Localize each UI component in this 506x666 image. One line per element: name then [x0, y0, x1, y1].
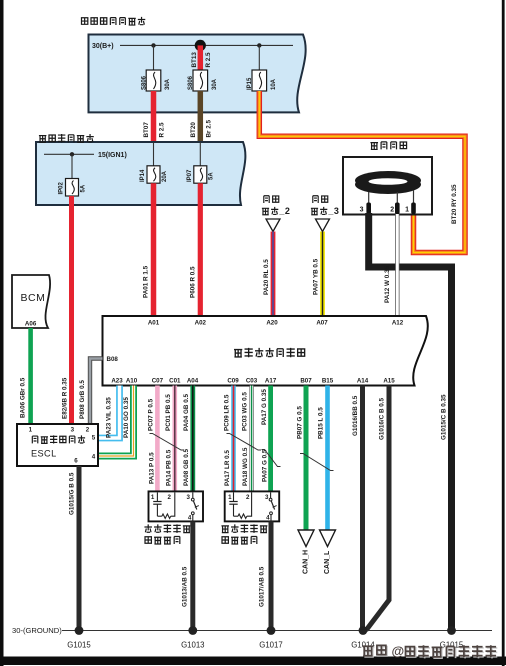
keyless control module 无钥匙控制模块: [103, 316, 428, 386]
ground G1014: [359, 626, 368, 635]
ground G1015 (ESCL): [75, 626, 84, 635]
ground G1015 (coil): [447, 626, 456, 635]
svg-text:E82/6B R 0.35: E82/6B R 0.35: [61, 377, 68, 419]
svg-text:PA20 RL 0.5: PA20 RL 0.5: [263, 259, 270, 295]
svg-text:G1016/C B 0.5: G1016/C B 0.5: [379, 397, 386, 440]
svg-text:A10: A10: [126, 378, 138, 385]
svg-text:IP07: IP07: [187, 169, 193, 182]
coil pin 1 lead: [413, 190, 415, 204]
wire 30(B+) to fuse IP15: [258, 45, 260, 70]
svg-text:3: 3: [360, 207, 364, 214]
svg-text:2: 2: [285, 206, 290, 216]
svg-text:PC07 P 0.5: PC07 P 0.5: [148, 398, 155, 431]
border frame: [0, 0, 4, 666]
svg-text:3: 3: [186, 494, 190, 501]
node on 30(B+) above S806-2 (junction): [195, 40, 206, 51]
connector slash right antenna wires: [227, 434, 262, 451]
wire G1016/C B 0.5 (A15 to ground G1014): [365, 386, 389, 631]
fuse IP07 5A: [194, 166, 207, 183]
svg-text:S806: S806: [141, 75, 147, 90]
immobilizer coil box 防盗线圈: [370, 143, 378, 150]
svg-text:BT07: BT07: [143, 122, 150, 138]
svg-text:PB07 G 0.5: PB07 G 0.5: [296, 406, 303, 439]
wire G1015/C B 0.35 (coil pin3 to ground G1015, thick black): [369, 213, 452, 631]
engine compartment fuse box 发动机舱电器盒: [89, 35, 306, 113]
wire G1015/G B 0.5 (ESCL pin6 to ground G1015): [77, 466, 82, 631]
coil pin 3 terminal: [366, 203, 371, 215]
svg-text:BT20: BT20: [190, 122, 197, 138]
wire PC09 LR 0.5 / PA17 LR 0.5 (C09 to right antenna pin1): [231, 386, 236, 492]
connector slash left antenna wires: [150, 434, 185, 451]
wire BT20 RY 0.35 orange (IP15 to immobilizer coil pin1): [259, 91, 465, 253]
wire P808 GrB 0.5 (module B08 to ESCL pin2): [90, 359, 103, 425]
svg-text:G1017/AB 0.5: G1017/AB 0.5: [259, 566, 266, 607]
wire PA20 RL 0.5 (brake switch 2 to module A20): [271, 232, 276, 317]
coil pin 3 lead: [368, 192, 370, 204]
svg-text:A04: A04: [187, 378, 199, 385]
svg-text:C07: C07: [152, 378, 164, 385]
svg-text:PA01 R 1.5: PA01 R 1.5: [143, 265, 150, 298]
svg-text:G1013/AB 0.5: G1013/AB 0.5: [182, 566, 189, 607]
svg-text:30A: 30A: [212, 78, 218, 90]
wire PB15 L 0.5 (B15 to CAN_L): [325, 386, 330, 530]
svg-text:2: 2: [86, 427, 90, 434]
svg-text:R 2.5: R 2.5: [205, 52, 212, 68]
svg-text:PC01 PB 0.5: PC01 PB 0.5: [165, 394, 172, 431]
wire PA23 VIL 0.35 (module A23 to ESCL pin5): [98, 386, 120, 439]
node on 30(B+) above IP15: [257, 43, 261, 47]
svg-text:BCM: BCM: [21, 292, 46, 304]
svg-text:5A: 5A: [80, 184, 86, 192]
svg-text:A06: A06: [25, 321, 37, 328]
wire PA07 YB 0.5 (brake switch 3 to module A07): [320, 232, 325, 317]
wire P606 R 0.5 (IP07 to module A02): [198, 183, 203, 316]
wire G1013/AB 0.5 (left antenna pin4 to ground G1013): [190, 521, 195, 630]
svg-text:5: 5: [92, 435, 96, 442]
svg-text:15(IGN1): 15(IGN1): [98, 152, 127, 159]
svg-text:A01: A01: [148, 320, 160, 327]
wire 15(IGN1) to fuse IP02: [71, 154, 73, 178]
svg-text:A07: A07: [316, 320, 328, 327]
svg-text:PA23 VIL 0.35: PA23 VIL 0.35: [105, 397, 112, 438]
wire BT13 R 2.5 (30(B+) to fuse S806-2): [198, 45, 204, 70]
wire G1016/BB 0.5 (A14 to ground G1014): [360, 386, 365, 631]
wire PA12 W 0.35 (coil pin2 to module A12): [395, 214, 399, 316]
svg-text:20A: 20A: [162, 170, 168, 182]
svg-text:A02: A02: [195, 320, 207, 327]
svg-text:10A: 10A: [271, 78, 277, 90]
svg-text:G1015/G B 0.5: G1015/G B 0.5: [69, 472, 76, 515]
ground G1013: [188, 626, 197, 635]
svg-text:A23: A23: [111, 378, 123, 385]
svg-text:4: 4: [92, 454, 96, 461]
svg-text:C09: C09: [227, 378, 239, 385]
wire BT07 R 2.5 (S806-1 to IP14): [151, 91, 157, 142]
svg-text:2: 2: [246, 494, 250, 501]
svg-text:Br 2.5: Br 2.5: [205, 120, 212, 138]
svg-text:IP15: IP15: [247, 77, 253, 90]
svg-text:P606 R 0.5: P606 R 0.5: [190, 266, 197, 298]
brake switch 2 connector 制动开关_2: [264, 196, 269, 203]
svg-text:PA14 PB 0.5: PA14 PB 0.5: [165, 449, 172, 486]
right front door handle LF antenna 右前门把手低频天线: [225, 491, 280, 521]
svg-text:B08: B08: [107, 356, 119, 363]
svg-text:S806: S806: [188, 75, 194, 90]
wire 30(B+) to fuse S806-1: [153, 45, 155, 70]
coil pin 2 lead: [396, 192, 398, 204]
connector slash CAN wires: [300, 454, 334, 471]
svg-text:PA08 GB 0.5: PA08 GB 0.5: [183, 449, 190, 486]
wire PB07 G 0.5 (B07 to CAN_H): [304, 386, 309, 530]
svg-text:G1016/BB 0.5: G1016/BB 0.5: [352, 395, 359, 436]
svg-text:PC03 WG 0.5: PC03 WG 0.5: [242, 392, 249, 431]
left front door handle LF antenna 左前门把手低频天线: [149, 491, 204, 521]
svg-text:G1017: G1017: [259, 640, 282, 649]
brake switch 3 connector 制动开关_3: [313, 196, 318, 203]
watermark 头条@汽修技师众微联: [364, 647, 387, 657]
svg-text:C03: C03: [246, 378, 258, 385]
svg-text:PC09 LR 0.5: PC09 LR 0.5: [224, 394, 231, 431]
coil pin 2 terminal: [395, 203, 400, 215]
node on 15(IGN1): [70, 152, 74, 156]
svg-text:BT20 RY 0.35: BT20 RY 0.35: [451, 184, 458, 224]
coil pin 1 terminal: [411, 203, 416, 215]
svg-text:B15: B15: [322, 378, 334, 385]
instrument panel fuse box 仪表板电器盒: [36, 142, 245, 205]
connector CAN_H: [298, 530, 314, 547]
svg-text:CAN_H: CAN_H: [302, 550, 309, 574]
wire PA17 G 0.35 / PA07 G 0.5 (A17 to right antenna pin3): [268, 386, 273, 492]
svg-text:PA07 G 0.5: PA07 G 0.5: [261, 449, 268, 482]
ground G1017: [267, 626, 276, 635]
svg-text:PB15 L 0.5: PB15 L 0.5: [318, 407, 325, 439]
svg-text:PA12 W 0.35: PA12 W 0.35: [384, 266, 391, 303]
wire PA01 R 1.5 (IP14 to module A01): [151, 183, 157, 316]
ESCL electronic steering column lock box 电子转向柱锁: [17, 424, 98, 466]
wire BT20 Br 2.5 (S806-2 to IP07): [198, 91, 204, 142]
svg-text:PA07 YB 0.5: PA07 YB 0.5: [313, 258, 320, 295]
svg-text:PA18 WG 0.5: PA18 WG 0.5: [242, 447, 249, 486]
svg-text:A14: A14: [357, 378, 369, 385]
node on 30(B+) above S806-1: [151, 43, 155, 47]
connector CAN_L: [320, 530, 336, 547]
wire PC07 P 0.5 / PA13 P 0.5 (C07 to left antenna pin1, pink): [155, 386, 160, 492]
fuse IP14 20A: [147, 166, 160, 183]
svg-text:IP02: IP02: [58, 181, 64, 194]
svg-text:BA06 GBr 0.5: BA06 GBr 0.5: [20, 377, 27, 418]
svg-text:@: @: [392, 643, 405, 658]
connector slash A17 wire: [262, 450, 281, 467]
svg-text:BT13: BT13: [191, 52, 198, 68]
coil winding (torus): [355, 175, 421, 194]
svg-text:6: 6: [74, 458, 78, 465]
svg-text:30-(GROUND): 30-(GROUND): [12, 626, 62, 635]
svg-text:ESCL: ESCL: [31, 449, 57, 459]
svg-text:PA10 GO 0.35: PA10 GO 0.35: [123, 397, 130, 438]
svg-text:P808 GrB 0.5: P808 GrB 0.5: [79, 380, 86, 419]
wire G1017/AB 0.5 (right antenna pin4 to ground G1017): [269, 521, 274, 630]
wire box top to fuse IP14: [153, 142, 155, 166]
fuse IP15 10A: [252, 70, 267, 91]
svg-text:5A: 5A: [209, 172, 215, 180]
svg-text:30(B+): 30(B+): [92, 43, 114, 50]
wire box top to fuse IP07: [199, 142, 201, 166]
svg-text:A15: A15: [383, 378, 395, 385]
svg-text:1: 1: [405, 207, 409, 214]
svg-text:30A: 30A: [165, 78, 171, 90]
svg-text:3: 3: [71, 427, 75, 434]
svg-text:R 2.5: R 2.5: [159, 122, 166, 138]
svg-text:2: 2: [167, 494, 171, 501]
fuse S806 30A (left): [146, 70, 161, 91]
svg-text:1: 1: [29, 427, 33, 434]
fuse S806 30A (right): [193, 70, 208, 91]
svg-text:PA17 G 0.35: PA17 G 0.35: [261, 389, 268, 425]
svg-text:PA13 P 0.5: PA13 P 0.5: [149, 452, 156, 484]
svg-text:3: 3: [265, 494, 269, 501]
bus 30(B+): [120, 44, 293, 46]
wire PA04 GB 0.5 / PA08 GB 0.5 (A04 to left antenna pin3): [190, 386, 195, 492]
svg-text:A17: A17: [265, 378, 277, 385]
svg-text:CAN_L: CAN_L: [324, 550, 331, 574]
svg-text:PA04 GB 0.5: PA04 GB 0.5: [183, 394, 190, 431]
wire PA10 GO 0.35 (module A10 to ESCL pin4): [98, 386, 134, 457]
wire PC01 PB 0.5 / PA14 PB 0.5 (C01 to left antenna pin2): [173, 386, 178, 492]
fuse IP02 5A: [66, 179, 79, 197]
bus 15(IGN1): [44, 153, 94, 155]
svg-text:A20: A20: [266, 320, 278, 327]
wire PC03 WG 0.5 / PA18 WG 0.5 (C03 to right antenna pin2): [249, 386, 253, 492]
BCM module box: [12, 275, 50, 328]
svg-text:G1013: G1013: [181, 640, 204, 649]
svg-text:3: 3: [334, 206, 339, 216]
svg-text:IP14: IP14: [140, 169, 146, 182]
svg-text:G1015: G1015: [67, 640, 91, 649]
wire BA06 GBr 0.5 (BCM A06 to ESCL pin1): [28, 328, 33, 424]
svg-text:PA17 LR 0.5: PA17 LR 0.5: [224, 450, 231, 486]
svg-text:2: 2: [390, 207, 394, 214]
svg-text:4: 4: [266, 515, 270, 522]
svg-text:4: 4: [188, 515, 192, 522]
svg-text:C01: C01: [169, 378, 181, 385]
svg-text:A12: A12: [392, 320, 404, 327]
svg-text:1: 1: [151, 494, 155, 501]
wire E82/6B R 0.35 (IP02 to ESCL pin3): [69, 196, 74, 424]
svg-text:G1015/C B 0.35: G1015/C B 0.35: [441, 394, 448, 440]
svg-text:1: 1: [228, 494, 232, 501]
svg-text:B07: B07: [300, 378, 312, 385]
